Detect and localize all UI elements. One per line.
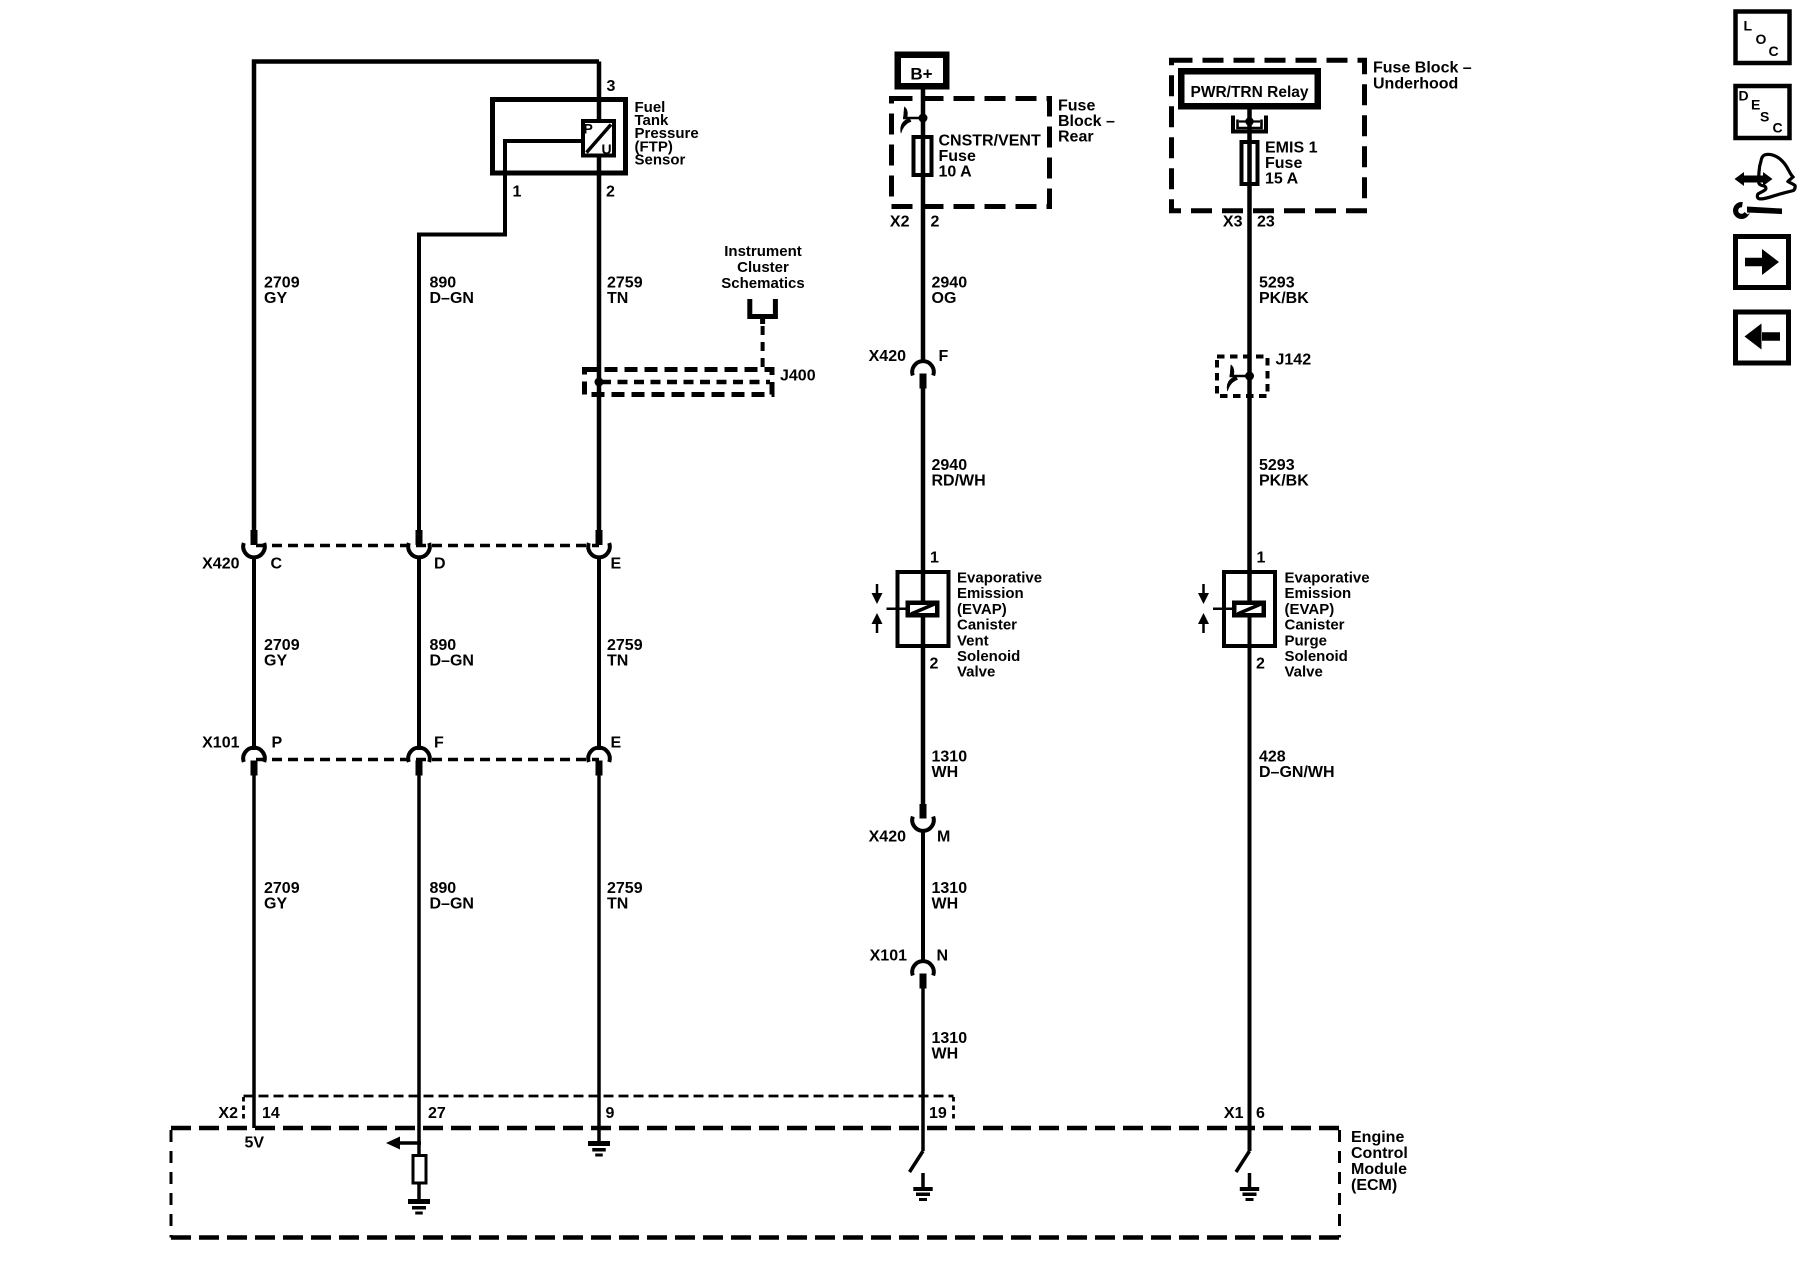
svg-text:PWR/TRN Relay: PWR/TRN Relay [1191, 84, 1309, 101]
svg-text:F: F [939, 348, 949, 365]
svg-text:14: 14 [262, 1105, 280, 1122]
svg-text:RD/WH: RD/WH [932, 472, 986, 489]
svg-text:PK/BK: PK/BK [1259, 290, 1309, 307]
svg-text:27: 27 [428, 1105, 446, 1122]
svg-text:X2: X2 [890, 214, 910, 231]
svg-text:1310: 1310 [932, 749, 968, 766]
svg-text:Schematics: Schematics [721, 275, 804, 292]
svg-text:Valve: Valve [1285, 664, 1323, 681]
svg-text:Evaporative: Evaporative [1285, 570, 1370, 587]
svg-text:2709: 2709 [264, 275, 300, 292]
svg-text:M: M [937, 829, 950, 846]
svg-text:D–GN: D–GN [430, 290, 474, 307]
svg-text:Module: Module [1351, 1161, 1407, 1178]
svg-text:Fuse: Fuse [1058, 98, 1095, 115]
svg-text:2: 2 [930, 656, 939, 673]
svg-text:Engine: Engine [1351, 1129, 1404, 1146]
svg-text:1: 1 [513, 184, 522, 201]
svg-text:Control: Control [1351, 1145, 1408, 1162]
svg-text:5V: 5V [245, 1135, 265, 1152]
svg-text:6: 6 [1256, 1105, 1265, 1122]
svg-text:X420: X420 [869, 348, 906, 365]
svg-text:J400: J400 [780, 368, 816, 385]
svg-text:23: 23 [1257, 214, 1275, 231]
svg-text:Valve: Valve [957, 664, 995, 681]
svg-text:D–GN/WH: D–GN/WH [1259, 764, 1335, 781]
svg-text:890: 890 [430, 637, 457, 654]
svg-text:Rear: Rear [1058, 129, 1094, 146]
svg-text:5293: 5293 [1259, 275, 1295, 292]
svg-text:X1: X1 [1224, 1105, 1244, 1122]
svg-text:L: L [1744, 18, 1753, 34]
svg-text:D: D [1739, 88, 1749, 104]
svg-text:GY: GY [264, 653, 287, 670]
svg-text:2: 2 [1256, 656, 1265, 673]
svg-text:Underhood: Underhood [1373, 76, 1458, 93]
svg-text:OG: OG [932, 290, 957, 307]
svg-text:D–GN: D–GN [430, 896, 474, 913]
svg-text:Fuse: Fuse [1265, 155, 1302, 172]
svg-text:Vent: Vent [957, 632, 989, 649]
svg-text:428: 428 [1259, 749, 1286, 766]
svg-text:2759: 2759 [607, 880, 643, 897]
svg-text:X2: X2 [218, 1105, 238, 1122]
svg-text:2940: 2940 [932, 275, 968, 292]
svg-text:1: 1 [1257, 550, 1266, 567]
svg-text:Cluster: Cluster [737, 259, 789, 276]
svg-text:Sensor: Sensor [635, 151, 686, 168]
svg-text:Solenoid: Solenoid [957, 648, 1020, 665]
svg-text:1310: 1310 [932, 880, 968, 897]
svg-text:Canister: Canister [957, 617, 1017, 634]
svg-text:TN: TN [607, 653, 628, 670]
svg-text:X101: X101 [870, 948, 907, 965]
svg-text:1310: 1310 [932, 1030, 968, 1047]
svg-text:N: N [937, 948, 949, 965]
svg-text:TN: TN [607, 290, 628, 307]
svg-text:(EVAP): (EVAP) [957, 601, 1007, 618]
svg-text:PK/BK: PK/BK [1259, 472, 1309, 489]
svg-text:D: D [434, 556, 446, 573]
svg-text:Evaporative: Evaporative [957, 570, 1042, 587]
svg-text:E: E [611, 735, 622, 752]
svg-text:GY: GY [264, 290, 287, 307]
svg-text:C: C [1769, 43, 1779, 59]
svg-text:U: U [602, 141, 612, 157]
svg-text:Instrument: Instrument [724, 243, 802, 260]
svg-text:C: C [271, 556, 283, 573]
svg-text:Fuse: Fuse [939, 148, 976, 165]
svg-text:10 A: 10 A [939, 164, 973, 181]
svg-text:C: C [1773, 120, 1783, 136]
svg-text:GY: GY [264, 896, 287, 913]
svg-text:O: O [1756, 31, 1767, 47]
svg-text:2709: 2709 [264, 880, 300, 897]
svg-text:X420: X420 [869, 829, 906, 846]
svg-text:2759: 2759 [607, 275, 643, 292]
svg-text:P: P [584, 121, 593, 137]
svg-text:Block –: Block – [1058, 113, 1115, 130]
svg-text:J142: J142 [1276, 352, 1312, 369]
svg-text:B+: B+ [910, 65, 932, 84]
svg-text:Solenoid: Solenoid [1285, 648, 1348, 665]
svg-text:Emission: Emission [957, 585, 1024, 602]
svg-text:X101: X101 [202, 735, 239, 752]
svg-text:D–GN: D–GN [430, 653, 474, 670]
svg-text:2: 2 [606, 184, 615, 201]
svg-text:9: 9 [606, 1105, 615, 1122]
svg-text:890: 890 [430, 880, 457, 897]
svg-text:1: 1 [930, 550, 939, 567]
svg-text:TN: TN [607, 896, 628, 913]
svg-text:X420: X420 [202, 556, 239, 573]
svg-text:S: S [1760, 109, 1769, 125]
svg-text:3: 3 [607, 78, 616, 95]
svg-text:CNSTR/VENT: CNSTR/VENT [939, 133, 1041, 150]
svg-text:WH: WH [932, 896, 959, 913]
svg-text:2759: 2759 [607, 637, 643, 654]
svg-text:E: E [611, 556, 622, 573]
svg-text:WH: WH [932, 764, 959, 781]
svg-text:2940: 2940 [932, 457, 968, 474]
svg-text:P: P [272, 735, 283, 752]
svg-text:Canister: Canister [1285, 617, 1345, 634]
svg-text:890: 890 [430, 275, 457, 292]
svg-text:F: F [434, 735, 444, 752]
svg-text:E: E [1751, 97, 1760, 113]
svg-text:5293: 5293 [1259, 457, 1295, 474]
svg-text:15 A: 15 A [1265, 171, 1299, 188]
svg-text:X3: X3 [1223, 214, 1243, 231]
svg-text:2: 2 [931, 214, 940, 231]
svg-text:19: 19 [929, 1105, 947, 1122]
svg-text:(EVAP): (EVAP) [1285, 601, 1335, 618]
svg-text:2709: 2709 [264, 637, 300, 654]
svg-text:Purge: Purge [1285, 632, 1328, 649]
svg-text:(ECM): (ECM) [1351, 1177, 1397, 1194]
svg-text:EMIS 1: EMIS 1 [1265, 140, 1318, 157]
svg-text:Fuse Block –: Fuse Block – [1373, 60, 1472, 77]
svg-text:WH: WH [932, 1046, 959, 1063]
svg-text:Emission: Emission [1285, 585, 1352, 602]
